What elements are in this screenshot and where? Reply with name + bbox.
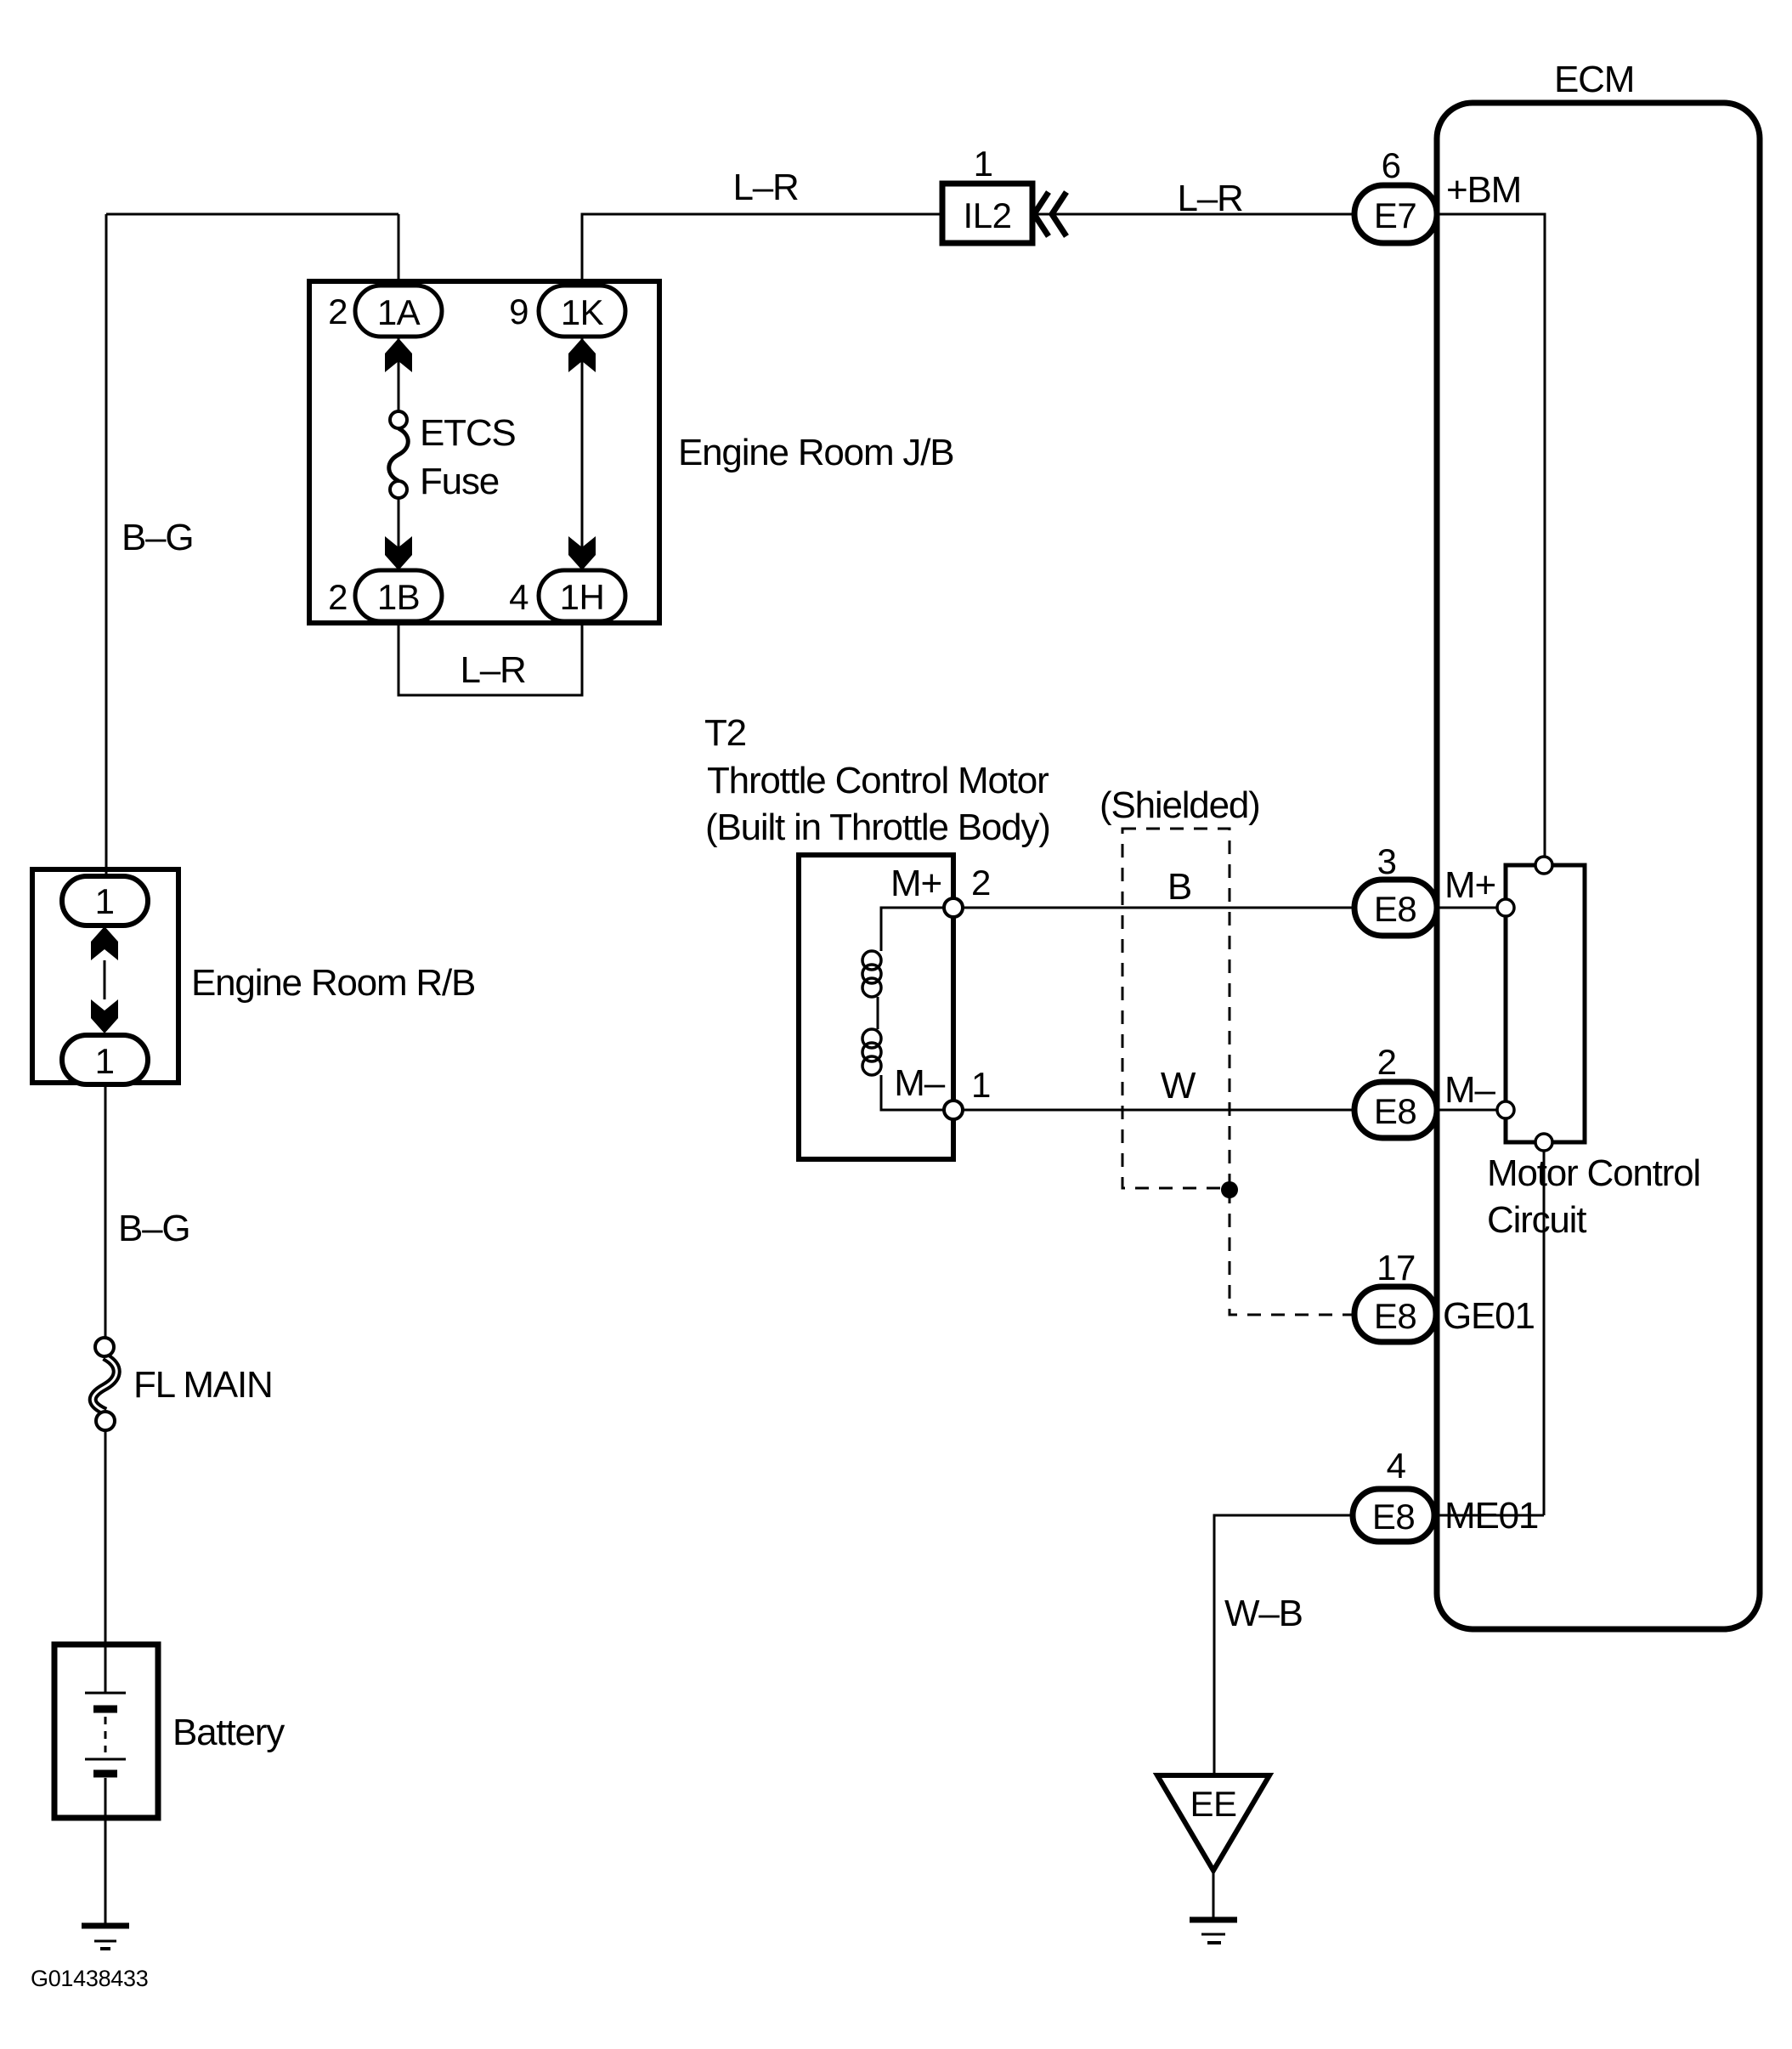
Engine Room J/B box [309, 281, 659, 623]
wire inside J/B from fuse to 1B [398, 497, 400, 571]
arrow down into R/B bottom connector [91, 999, 118, 1033]
wire left vertical B-G down to Engine Room R/B [105, 214, 108, 877]
svg-text:E8: E8 [1374, 1296, 1416, 1336]
ground symbol under battery [82, 1926, 129, 1949]
svg-text:2: 2 [328, 577, 348, 617]
connector E8 pin 2 [1354, 1082, 1437, 1138]
wire L-R below J/B linking 1B and 1H [399, 623, 582, 695]
arrow down into connector 1H [568, 536, 596, 570]
wire W from motor pin 1 to E8 pin 2 [953, 1109, 1356, 1112]
svg-text:W–B: W–B [1224, 1593, 1303, 1634]
battery cell symbol [85, 1693, 126, 1774]
connector 1K [539, 286, 625, 337]
svg-text:L–R: L–R [460, 649, 525, 691]
svg-text:T2: T2 [704, 712, 746, 754]
svg-text:M+: M+ [890, 863, 941, 904]
svg-text:2: 2 [328, 292, 348, 331]
svg-text:4: 4 [509, 577, 529, 617]
svg-text:1K: 1K [561, 292, 604, 332]
ground triangle EE [1157, 1775, 1269, 1871]
wire drop into connector 1A [398, 214, 400, 287]
svg-text:9: 9 [509, 292, 529, 331]
fuse ETCS [389, 411, 409, 498]
connector IL2 [942, 184, 1032, 243]
motor pin 1 terminal [944, 1101, 963, 1119]
wire B-G top horizontal from battery branch to 1A [106, 213, 399, 216]
svg-text:Motor Control: Motor Control [1487, 1152, 1700, 1194]
svg-text:M+: M+ [1444, 864, 1495, 906]
svg-text:(Shielded): (Shielded) [1100, 784, 1260, 826]
connector 1 top of R/B [62, 876, 148, 925]
wire ME01 from E8 pin 4 to internal net [1437, 1514, 1544, 1517]
svg-text:Fuse: Fuse [420, 461, 499, 502]
svg-text:GE01: GE01 [1443, 1295, 1535, 1337]
wire from FL MAIN to battery [105, 1430, 107, 1692]
ground symbol under EE [1190, 1920, 1237, 1943]
svg-text:Engine Room R/B: Engine Room R/B [191, 962, 475, 1004]
connector 1A [355, 286, 442, 337]
battery box [54, 1644, 158, 1818]
svg-text:2: 2 [971, 863, 991, 903]
wire from EE to earth [1213, 1871, 1215, 1918]
arrow up into connector 1A [385, 338, 412, 372]
svg-text:E8: E8 [1372, 1497, 1415, 1537]
svg-text:(Built in Throttle Body): (Built in Throttle Body) [705, 807, 1050, 848]
connector 1B [355, 570, 442, 621]
arrow up into connector 1K [568, 338, 596, 372]
inductor coil windings [862, 951, 881, 1075]
arrow down into connector 1B [385, 536, 412, 570]
Engine Room R/B box [32, 869, 178, 1083]
svg-text:B–G: B–G [122, 517, 193, 558]
svg-text:1: 1 [95, 1041, 115, 1081]
wire from connector 1K up and right (L-R net) to IL2 [582, 214, 942, 287]
svg-text:M–: M– [1444, 1069, 1495, 1111]
wire from E8 pin 2 to motor control circuit M- [1437, 1109, 1496, 1112]
wire between R/B arrows [104, 960, 106, 999]
svg-text:1: 1 [95, 881, 115, 921]
wire +BM inside ECM from E7 down to motor control circuit [1437, 214, 1545, 858]
shield dashed box around B and W wires [1122, 829, 1230, 1188]
connector E8 pin 17 [1354, 1287, 1436, 1342]
connector 1H [539, 570, 625, 621]
wire from motor control circuit bottom to ME01 [1543, 1151, 1546, 1515]
svg-text:ECM: ECM [1554, 59, 1634, 100]
wire inside J/B from 1A to fuse [398, 337, 400, 412]
svg-text:+BM: +BM [1446, 169, 1521, 211]
svg-text:L–R: L–R [1177, 178, 1242, 219]
wire from battery to ground [105, 1778, 107, 1924]
svg-text:Engine Room J/B: Engine Room J/B [678, 432, 953, 473]
svg-text:E8: E8 [1374, 1091, 1416, 1131]
svg-text:2: 2 [1377, 1042, 1397, 1082]
svg-text:ETCS: ETCS [420, 412, 516, 454]
junction dot on shield [1221, 1181, 1238, 1198]
svg-text:1B: 1B [377, 577, 420, 617]
svg-text:IL2: IL2 [964, 195, 1012, 235]
throttle control motor box T2 [799, 855, 953, 1159]
svg-text:1H: 1H [560, 577, 605, 617]
connector E8 pin 3 [1354, 880, 1437, 936]
svg-text:FL MAIN: FL MAIN [133, 1364, 273, 1406]
wire W-B from E8 pin 4 to ground EE [1214, 1515, 1353, 1775]
wire L-R from IL2 to ECM pin E7 [1032, 213, 1356, 216]
wire inside J/B from 1K to 1H [581, 337, 584, 571]
svg-text:1: 1 [974, 144, 993, 184]
svg-text:6: 6 [1382, 145, 1401, 185]
in-line connector chevrons at IL2 [1034, 192, 1066, 236]
wire B from motor pin 2 to E8 pin 3 [953, 907, 1356, 909]
svg-text:W: W [1161, 1065, 1196, 1107]
wire B-G from R/B to FL MAIN [105, 1084, 107, 1339]
svg-text:B–G: B–G [118, 1208, 189, 1249]
svg-text:Throttle Control Motor: Throttle Control Motor [707, 760, 1049, 801]
motor winding wire from pin 2 [878, 908, 953, 1110]
svg-text:EE: EE [1190, 1784, 1236, 1824]
svg-text:17: 17 [1377, 1248, 1416, 1288]
svg-text:G01438433: G01438433 [31, 1966, 148, 1991]
svg-text:Battery: Battery [172, 1712, 285, 1753]
svg-text:M–: M– [894, 1062, 945, 1104]
svg-text:E8: E8 [1374, 889, 1416, 929]
svg-text:Circuit: Circuit [1487, 1199, 1586, 1241]
connector E7 pin 6 [1354, 185, 1437, 243]
svg-text:4: 4 [1387, 1446, 1406, 1486]
connector E8 pin 4 [1353, 1489, 1434, 1542]
wire from E8 pin 3 to motor control circuit M+ [1437, 907, 1496, 909]
svg-text:E7: E7 [1374, 195, 1416, 235]
svg-text:1: 1 [971, 1065, 991, 1105]
svg-text:L–R: L–R [732, 167, 798, 208]
fusible link FL MAIN [93, 1338, 116, 1430]
svg-text:1A: 1A [377, 292, 421, 332]
motor pin 2 terminal [944, 898, 963, 917]
arrow up into R/B top connector [91, 926, 118, 960]
svg-text:ME01: ME01 [1444, 1495, 1538, 1537]
motor control circuit block [1497, 857, 1585, 1151]
ECM box U1 [1437, 103, 1760, 1629]
svg-text:3: 3 [1377, 841, 1397, 881]
connector 1 bottom of R/B [62, 1035, 148, 1084]
shield drain dashed wire to E8 pin 17 [1230, 1190, 1354, 1315]
svg-text:B: B [1167, 866, 1191, 908]
